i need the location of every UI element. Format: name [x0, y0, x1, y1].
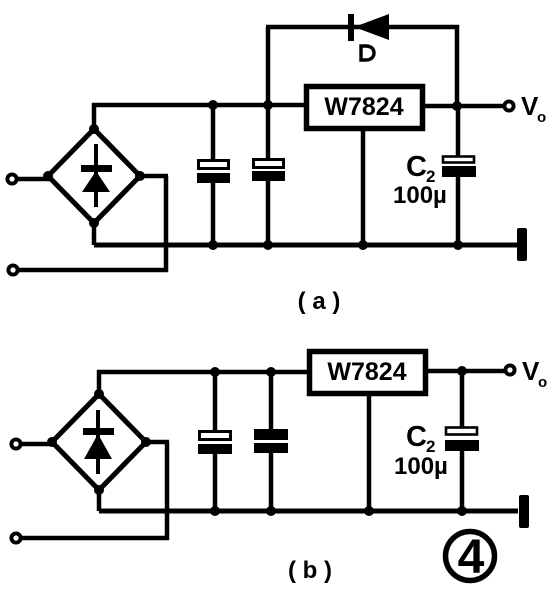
label D [361, 46, 374, 60]
label V0 b [522, 356, 547, 391]
bridge rectifier BR1 [43, 124, 145, 228]
node [364, 506, 374, 516]
node [266, 367, 276, 377]
capacitor C1a [197, 105, 230, 245]
label V0 a [521, 91, 546, 126]
wire lower input b [20, 442, 169, 540]
wire [97, 490, 102, 511]
capacitor C2b [445, 371, 479, 511]
terminal IN2b [11, 533, 20, 542]
wire diode loop right [455, 25, 460, 106]
ground a [517, 228, 527, 261]
capacitor C1b [198, 372, 232, 511]
wire diode loop left [266, 27, 271, 105]
wire regulator gnd pin a [361, 129, 366, 245]
wire lower input a [17, 176, 168, 272]
wire [16, 177, 50, 182]
node [453, 240, 463, 250]
node [208, 100, 218, 110]
svg-text:( b ): ( b ) [288, 557, 332, 584]
wire top bus b [97, 370, 308, 375]
svg-text:C: C [406, 151, 427, 183]
capacitor C2a [442, 106, 476, 245]
svg-text:( a ): ( a ) [298, 288, 341, 315]
wire top bus a [92, 103, 306, 108]
wire [92, 223, 97, 245]
node [263, 240, 273, 250]
capacitor C3b [254, 372, 288, 511]
wire regulator gnd pin b [367, 394, 372, 511]
diode D [348, 14, 389, 41]
terminal IN1a [7, 174, 16, 183]
wire diode loop top [266, 25, 459, 30]
wire [20, 442, 54, 447]
terminal IN1b [11, 439, 20, 448]
wire [92, 103, 97, 129]
bridge rectifier BR2 [47, 389, 151, 495]
node [266, 506, 276, 516]
label C2 b [406, 421, 435, 456]
svg-text:100µ: 100µ [393, 182, 447, 209]
svg-text:W7824: W7824 [324, 93, 403, 121]
wire bottom bus a [94, 243, 517, 248]
wire bottom bus b [99, 509, 518, 514]
wire output a [425, 104, 504, 109]
figure number 4 [446, 531, 495, 584]
node [457, 506, 467, 516]
label (b) [288, 557, 332, 584]
svg-text:4: 4 [458, 531, 485, 584]
label 100u b [394, 453, 448, 480]
node [358, 240, 368, 250]
svg-text:100µ: 100µ [394, 453, 448, 480]
node [452, 101, 462, 111]
regulator U1 W7824 [307, 87, 423, 129]
label (a) [298, 288, 341, 315]
node [263, 100, 273, 110]
terminal VOa [504, 101, 513, 110]
ground b [519, 495, 529, 528]
svg-text:C: C [406, 421, 427, 453]
label 100u a [393, 182, 447, 209]
capacitor C3a [252, 105, 285, 245]
terminal IN2a [8, 265, 17, 274]
svg-text:W7824: W7824 [327, 358, 406, 386]
node [210, 506, 220, 516]
svg-text:o: o [537, 109, 546, 126]
node [208, 240, 218, 250]
label C2 a [406, 151, 435, 186]
regulator U2 W7824 [310, 352, 426, 394]
node [210, 367, 220, 377]
terminal VOb [505, 365, 514, 374]
svg-text:o: o [538, 374, 547, 391]
wire output b [428, 369, 505, 374]
node [457, 366, 467, 376]
wire [97, 370, 102, 394]
